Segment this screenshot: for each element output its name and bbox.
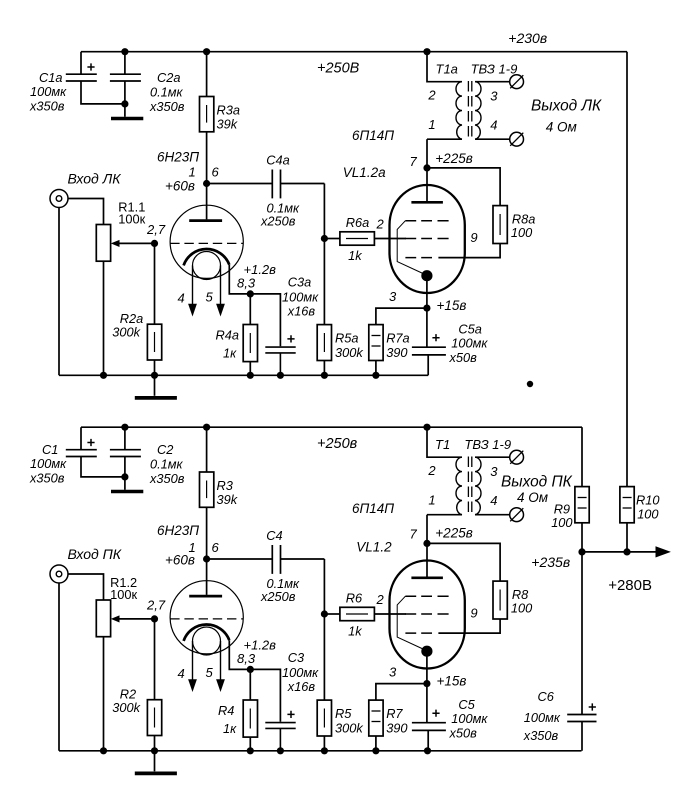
node gnd pot: [100, 372, 107, 379]
wire node to R4a: [249, 294, 251, 325]
node rail-T1: [423, 424, 430, 431]
svg-text:3: 3: [389, 289, 397, 304]
svg-text:100: 100: [551, 515, 573, 530]
node gnd R2: [151, 747, 158, 754]
node gnd R5: [321, 372, 328, 379]
pentode grid g2 dashed: [405, 632, 432, 634]
svg-text:6П14П: 6П14П: [352, 128, 394, 143]
svg-text:1: 1: [428, 117, 435, 132]
node pin7 +225v: [423, 164, 430, 171]
svg-text:x50в: x50в: [449, 350, 478, 365]
resistor R8a 100: [493, 206, 507, 244]
capacitor C3 100mk x16v: [265, 723, 295, 751]
triode heater circle: [193, 627, 221, 655]
wire +250V rail bottom: [81, 426, 582, 428]
potentiometer R1.1 100k: [96, 225, 110, 262]
pentode grid g1 dashed: [405, 238, 448, 240]
wire grid node to R2: [154, 619, 156, 700]
stray dot artifact: [527, 381, 533, 387]
triode cathode arc: [184, 249, 230, 265]
wire right rail +230v: [626, 52, 628, 487]
svg-text:2: 2: [376, 592, 385, 607]
node +15v: [423, 680, 430, 687]
node C4-R6-R5: [321, 235, 328, 242]
node anode +60v: [203, 180, 210, 187]
node R10 +280v: [623, 548, 630, 555]
svg-text:R7: R7: [386, 706, 403, 721]
svg-text:4: 4: [178, 666, 185, 681]
svg-text:39k: 39k: [217, 492, 238, 507]
svg-text:4: 4: [490, 118, 497, 133]
triode anode: [189, 595, 222, 598]
capacitor C5 100mk x50v: [412, 723, 446, 751]
svg-text:100: 100: [511, 600, 533, 615]
svg-text:7: 7: [410, 527, 418, 542]
wire node to R7: [376, 684, 427, 701]
transformer T1a primary: [427, 52, 462, 82]
ground rail: [59, 374, 428, 376]
svg-text:2: 2: [427, 88, 436, 103]
node R9 +235v: [578, 548, 585, 555]
wire R3 to anode node: [206, 507, 208, 559]
svg-text:T1: T1: [435, 437, 450, 452]
svg-text:2: 2: [427, 463, 436, 478]
pentode VL1.2a envelope: [390, 185, 465, 293]
wire T1 rail to R9: [581, 427, 583, 486]
svg-text:6: 6: [212, 165, 220, 180]
svg-text:C5a: C5a: [458, 322, 481, 337]
svg-text:300k: 300k: [112, 325, 140, 340]
svg-text:+235в: +235в: [531, 554, 570, 570]
output terminal top: [510, 450, 524, 464]
resistor R9 100: [575, 487, 589, 523]
svg-text:9: 9: [470, 230, 477, 245]
svg-text:1k: 1k: [348, 623, 362, 638]
node rail-R3: [203, 48, 210, 55]
arrow +280V: [656, 546, 671, 557]
capacitor C5a 100mk x50v: [412, 347, 446, 375]
pentode g3-cathode link: [397, 596, 423, 649]
svg-text:Выход ПК: Выход ПК: [501, 473, 573, 490]
svg-text:1к: 1к: [223, 346, 237, 361]
node C4-R6-R5: [321, 610, 328, 617]
wire +280V output: [582, 551, 657, 553]
svg-text:+225в: +225в: [435, 151, 472, 166]
wiper arrow: [119, 618, 155, 620]
svg-text:R3a: R3a: [217, 103, 240, 118]
node gnd R4: [247, 372, 254, 379]
svg-text:C1: C1: [42, 442, 58, 457]
pentode grid g3 dashed: [405, 595, 448, 597]
svg-text:+1.2в: +1.2в: [244, 637, 277, 652]
svg-text:x16в: x16в: [287, 304, 316, 319]
node rail-R3: [203, 424, 210, 431]
heater lead 4 arrow: [192, 266, 194, 305]
node rail-C2: [121, 48, 128, 55]
svg-text:39k: 39k: [217, 117, 238, 132]
output terminal bottom: [510, 132, 524, 146]
svg-text:4: 4: [178, 290, 185, 305]
svg-text:0.1мк: 0.1мк: [150, 457, 184, 472]
svg-text:390: 390: [386, 720, 408, 735]
pentode anode bar: [411, 201, 443, 204]
svg-text:100мк: 100мк: [30, 84, 67, 99]
input connector: [50, 190, 68, 208]
wire cathode down: [426, 276, 428, 347]
wire g2 to R8: [438, 619, 500, 633]
node grid 2,7: [151, 240, 158, 247]
resistor R5 300k: [317, 700, 331, 736]
node 8,3: [247, 666, 254, 673]
svg-text:C3: C3: [288, 650, 304, 665]
triode VL1.1a envelope: [170, 205, 243, 278]
svg-text:x350в: x350в: [523, 728, 559, 743]
svg-text:C6: C6: [538, 689, 555, 704]
output terminal top: [510, 75, 524, 89]
plus sign of C1: [87, 439, 94, 446]
svg-text:1: 1: [189, 540, 196, 555]
svg-text:1k: 1k: [348, 248, 362, 263]
node gnd pot: [100, 747, 107, 754]
svg-text:VL1.2a: VL1.2a: [343, 165, 386, 180]
output terminal bottom: [510, 508, 524, 522]
svg-text:ТВЗ 1-9: ТВЗ 1-9: [471, 62, 518, 77]
svg-text:R6: R6: [346, 591, 363, 606]
svg-text:100к: 100к: [110, 587, 137, 602]
wire +235v to C6: [581, 552, 583, 714]
svg-text:3: 3: [490, 89, 498, 104]
svg-text:C4a: C4a: [266, 152, 289, 167]
wire T1 pin1 to anode: [426, 139, 428, 201]
triode cathode arc: [184, 625, 230, 641]
capacitor C4 0.1mk x250v: [207, 545, 325, 574]
wire node to C3: [250, 669, 280, 721]
svg-text:R7a: R7a: [386, 331, 409, 346]
potentiometer R1.2 100k: [96, 600, 110, 637]
svg-text:3: 3: [490, 464, 498, 479]
resistor R2a 300k: [147, 324, 161, 360]
heater lead 4 arrow: [192, 641, 194, 680]
svg-text:100мк: 100мк: [282, 290, 319, 305]
resistor R8 100: [493, 581, 507, 619]
wire R3a to anode node: [206, 132, 208, 184]
resistor R10 100: [620, 487, 634, 523]
wire C4 to grid node: [323, 559, 325, 614]
wire C4a to grid node: [323, 184, 325, 239]
svg-text:VL1.2: VL1.2: [356, 540, 392, 555]
wire node to R7a: [376, 308, 427, 325]
svg-text:100мк: 100мк: [451, 711, 488, 726]
node gnd R5: [321, 747, 328, 754]
ground at C2: [124, 477, 126, 490]
svg-text:x350в: x350в: [29, 471, 65, 486]
capacitor C6 100mk x350v: [567, 715, 596, 751]
svg-text:390: 390: [386, 345, 408, 360]
svg-text:C2: C2: [157, 442, 173, 457]
input connector: [50, 565, 68, 583]
triode grid dashed: [170, 242, 243, 244]
resistor R4 1k: [243, 700, 257, 737]
node rail-C2: [121, 424, 128, 431]
plus sign of C3: [287, 711, 294, 718]
ground symbol: [154, 375, 156, 396]
svg-text:+250в: +250в: [317, 436, 358, 452]
wire node to R5a: [323, 239, 325, 325]
svg-text:+280В: +280В: [608, 577, 652, 594]
transformer T1 secondary: [475, 457, 481, 515]
node C1-C2 junction: [121, 100, 128, 107]
wire R6a to g1: [374, 238, 406, 240]
ground at C2: [124, 104, 126, 117]
svg-text:Выход ЛК: Выход ЛК: [531, 98, 602, 115]
svg-text:C5: C5: [458, 697, 475, 712]
svg-text:x350в: x350в: [149, 471, 185, 486]
transformer T1 primary: [427, 427, 462, 457]
pentode grid g1 dashed: [405, 613, 448, 615]
node gnd R2: [151, 372, 158, 379]
transformer T1a secondary: [475, 82, 481, 140]
svg-text:+225в: +225в: [435, 526, 472, 541]
pentode grid g3 dashed: [405, 220, 448, 222]
svg-text:0.1мк: 0.1мк: [150, 85, 184, 100]
svg-text:Вход ЛК: Вход ЛК: [68, 170, 122, 186]
wiper arrow: [119, 242, 155, 244]
triode anode: [189, 219, 222, 222]
resistor R4a 1k: [243, 325, 257, 362]
node pin7 +225v: [423, 540, 430, 547]
resistor R7 390: [369, 700, 383, 736]
svg-text:C4: C4: [266, 528, 282, 543]
svg-text:300k: 300k: [335, 345, 363, 360]
node gnd R7: [372, 372, 379, 379]
resistor R3 39k: [200, 472, 214, 507]
wire connector to ground rail: [58, 208, 60, 376]
svg-text:5: 5: [206, 290, 214, 305]
svg-text:Вход ПК: Вход ПК: [68, 546, 122, 562]
svg-text:9: 9: [470, 605, 477, 620]
resistor R3a 39k: [200, 97, 214, 132]
svg-text:6: 6: [212, 540, 220, 555]
wire +225v to R8a: [427, 168, 500, 206]
svg-text:C2a: C2a: [157, 70, 180, 85]
svg-text:100: 100: [637, 506, 659, 521]
node +15v: [423, 305, 430, 312]
resistor R2 300k: [147, 700, 161, 736]
node grid 2,7: [151, 615, 158, 622]
svg-text:6П14П: 6П14П: [352, 501, 394, 516]
triode grid dashed: [170, 618, 243, 620]
svg-text:x250в: x250в: [260, 589, 296, 604]
wire node to R4: [249, 669, 251, 700]
capacitor C3a 100mk x16v: [265, 347, 295, 375]
svg-text:100к: 100к: [118, 212, 145, 227]
node gnd R4: [247, 747, 254, 754]
svg-text:x16в: x16в: [287, 679, 316, 694]
resistor R5a 300k: [317, 325, 331, 361]
svg-text:4 Ом: 4 Ом: [546, 120, 577, 135]
node anode +60v: [203, 555, 210, 562]
wire rail to R3: [206, 427, 208, 472]
svg-text:+15в: +15в: [437, 298, 467, 313]
node C1-C2 junction: [121, 473, 128, 480]
capacitor C2 0.1mk x350v: [110, 427, 141, 477]
wire connector to pot: [68, 574, 104, 600]
capacitor C4a 0.1mk x250v: [207, 170, 325, 199]
pentode cathode dot: [421, 270, 432, 281]
wire node to R5: [323, 614, 325, 700]
svg-text:ТВЗ 1-9: ТВЗ 1-9: [464, 437, 511, 452]
svg-text:+230в: +230в: [508, 30, 547, 46]
svg-text:x50в: x50в: [449, 726, 478, 741]
svg-text:+1.2в: +1.2в: [244, 262, 277, 277]
wire node to C3a: [250, 294, 280, 346]
svg-text:5: 5: [206, 665, 214, 680]
svg-text:R5: R5: [335, 706, 352, 721]
heater lead 5 arrow: [220, 266, 222, 305]
wire R6 to g1: [374, 613, 406, 615]
wire +225v to R8: [427, 543, 500, 581]
svg-text:2: 2: [376, 217, 385, 232]
node gnd C5: [424, 747, 431, 754]
svg-text:6Н23П: 6Н23П: [157, 523, 199, 538]
plus sign of C6: [589, 703, 596, 710]
svg-text:2,7: 2,7: [146, 222, 166, 237]
ground symbol: [154, 751, 156, 772]
svg-text:100мк: 100мк: [282, 665, 319, 680]
svg-text:100мк: 100мк: [524, 710, 561, 725]
svg-text:2,7: 2,7: [146, 597, 166, 612]
svg-text:R5a: R5a: [335, 331, 358, 346]
heater lead 5 arrow: [220, 641, 222, 680]
capacitor C1 100mk x350v: [66, 427, 125, 477]
wire cathode to 8,3 node: [229, 265, 250, 294]
wire pot bottom to ground rail: [103, 637, 105, 751]
node rail-T1: [423, 48, 430, 55]
svg-text:T1a: T1a: [436, 62, 458, 77]
plus sign of C3a: [287, 335, 294, 342]
svg-text:6Н23П: 6Н23П: [157, 150, 199, 165]
svg-text:x250в: x250в: [260, 214, 296, 229]
plus sign of C5a: [432, 334, 439, 341]
wire connector to ground rail: [58, 583, 60, 751]
svg-text:x350в: x350в: [29, 99, 65, 114]
wire connector to pot: [68, 199, 104, 225]
svg-text:+15в: +15в: [437, 674, 467, 689]
wire grid node to R2a: [154, 243, 156, 324]
svg-text:R4: R4: [218, 703, 234, 718]
wire +250V rail top: [81, 51, 627, 53]
svg-text:x350в: x350в: [149, 99, 185, 114]
svg-text:300k: 300k: [335, 720, 363, 735]
pentode grid g2 dashed: [405, 257, 432, 259]
plus sign of C5: [432, 710, 439, 717]
svg-text:300k: 300k: [112, 700, 140, 715]
resistor R7a 390: [369, 325, 383, 361]
svg-text:R6a: R6a: [346, 215, 369, 230]
resistor R6a 1k: [324, 238, 340, 240]
svg-text:1: 1: [428, 492, 435, 507]
svg-text:C3a: C3a: [288, 275, 311, 290]
wire g2 to R8: [438, 244, 500, 258]
svg-text:+60в: +60в: [165, 179, 195, 194]
triode heater circle: [193, 252, 221, 280]
pentode cathode dot: [421, 646, 432, 657]
wire cathode to 8,3 node: [229, 640, 250, 669]
svg-text:R3: R3: [217, 478, 233, 493]
pentode VL1.2 envelope: [390, 561, 465, 669]
svg-text:100мк: 100мк: [451, 336, 488, 351]
svg-text:1к: 1к: [223, 721, 237, 736]
svg-text:4: 4: [490, 493, 497, 508]
transformer T1a core: [467, 81, 469, 140]
node gnd C3: [277, 747, 284, 754]
svg-text:C1a: C1a: [39, 70, 62, 85]
capacitor C1a 100mk x350v: [66, 52, 125, 104]
node 8,3: [247, 290, 254, 297]
svg-text:8,3: 8,3: [237, 276, 256, 291]
svg-text:100мк: 100мк: [30, 456, 67, 471]
plus sign of C1a: [87, 63, 94, 70]
pentode g3-cathode link: [397, 221, 423, 274]
node gnd R7: [372, 747, 379, 754]
svg-text:3: 3: [389, 664, 397, 679]
pentode anode bar: [411, 576, 443, 579]
node gnd C3: [277, 372, 284, 379]
wire T1 pin1 to anode: [426, 515, 428, 577]
svg-text:R4a: R4a: [216, 328, 239, 343]
svg-text:8,3: 8,3: [237, 651, 256, 666]
triode VL1.1 envelope: [170, 581, 243, 654]
capacitor C2a 0.1mk x350v: [110, 52, 141, 104]
ground rail: [59, 750, 582, 752]
svg-text:1: 1: [189, 165, 196, 180]
svg-text:+250В: +250В: [317, 61, 360, 77]
resistor R6 1k: [324, 613, 340, 615]
svg-text:4 Ом: 4 Ом: [517, 490, 548, 505]
svg-text:7: 7: [410, 154, 418, 169]
transformer T1 core: [467, 457, 469, 516]
wire pot bottom to ground rail: [103, 261, 105, 375]
wire rail to R3a: [206, 52, 208, 97]
wire cathode down: [426, 651, 428, 722]
svg-text:100: 100: [511, 225, 533, 240]
